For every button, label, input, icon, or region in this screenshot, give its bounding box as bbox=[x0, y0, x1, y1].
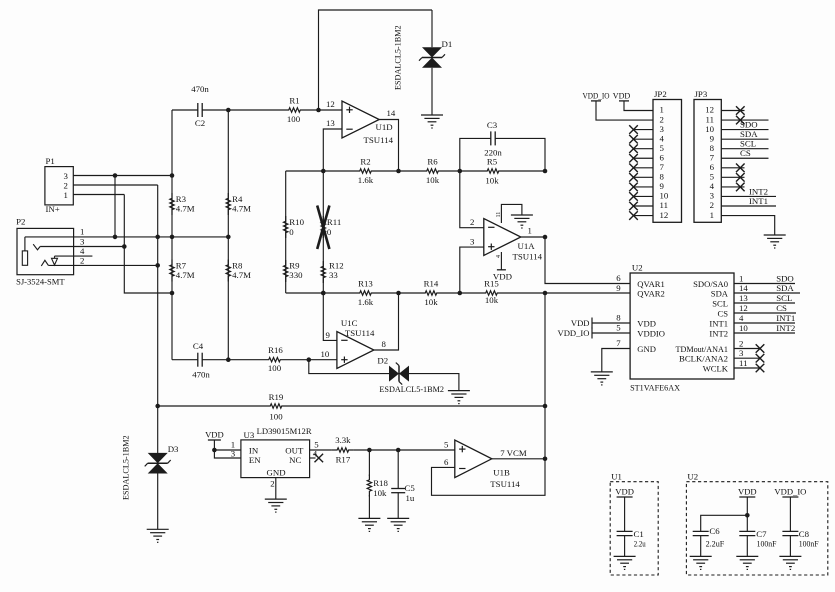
wire U2 GND pin 7 to ground bbox=[602, 349, 630, 372]
svg-text:6: 6 bbox=[660, 152, 665, 162]
jack sleeve line pin 1 bbox=[25, 236, 228, 238]
wire JP3 pin 3 net INT2 bbox=[721, 195, 776, 197]
power flag VDD above C7 bbox=[739, 496, 755, 498]
svg-text:R15: R15 bbox=[484, 279, 499, 289]
svg-text:1: 1 bbox=[64, 190, 68, 200]
wire P2 pin 2 to P1.2 column bbox=[48, 264, 157, 266]
svg-text:2: 2 bbox=[470, 217, 474, 227]
svg-text:C4: C4 bbox=[193, 341, 204, 351]
wire U1B -input pin 6 feedback loop bbox=[432, 459, 546, 496]
svg-text:6: 6 bbox=[444, 457, 449, 467]
svg-text:ST1VAFE6AX: ST1VAFE6AX bbox=[630, 383, 681, 393]
node junction R5 right / C3 right / U1A output net bbox=[543, 169, 548, 174]
wire JP2 pin 12 stub with no-connect bbox=[634, 215, 654, 217]
wire JP2 pin 6 stub with no-connect bbox=[634, 157, 654, 159]
capacitor C7 100nF bbox=[739, 531, 755, 535]
svg-text:100: 100 bbox=[268, 363, 282, 373]
op-amp U1B TSU114 bbox=[455, 440, 492, 478]
node junction VDD / C6 branch bbox=[745, 513, 750, 518]
svg-text:10k: 10k bbox=[373, 488, 387, 498]
svg-text:D2: D2 bbox=[377, 356, 388, 366]
svg-text:14: 14 bbox=[387, 108, 396, 118]
svg-text:4: 4 bbox=[660, 133, 665, 143]
wire JP3 pin 2 net INT1 bbox=[721, 205, 776, 207]
wire gain network row R2 left end down-corner at R10 column bbox=[286, 170, 355, 172]
svg-text:P1: P1 bbox=[46, 156, 55, 166]
wire JP3 pin 4 stub with no-connect bbox=[721, 186, 744, 188]
wire column R11/R12 from R2 row to QVAR2 row bbox=[322, 171, 324, 293]
svg-text:4: 4 bbox=[80, 246, 85, 256]
svg-text:SJ-3524-SMT: SJ-3524-SMT bbox=[16, 277, 65, 287]
ground below C1 bbox=[614, 556, 636, 569]
svg-text:C3: C3 bbox=[487, 120, 498, 130]
svg-text:100nF: 100nF bbox=[757, 539, 777, 549]
svg-text:SDA: SDA bbox=[711, 288, 729, 298]
svg-text:7: 7 bbox=[710, 152, 715, 162]
svg-text:5: 5 bbox=[444, 440, 449, 450]
svg-text:3: 3 bbox=[231, 449, 236, 459]
node junction P1.3 / R3 top / C2 left bbox=[170, 173, 175, 178]
svg-text:VDDIO: VDDIO bbox=[637, 329, 665, 339]
wire JP2 pin 7 stub with no-connect bbox=[634, 167, 654, 169]
svg-text:SDO: SDO bbox=[740, 119, 758, 129]
resistor R14 10k bbox=[420, 291, 442, 295]
svg-text:R17: R17 bbox=[336, 455, 351, 465]
wire P1 pin 2 to vertical column bbox=[73, 184, 157, 186]
svg-text:C6: C6 bbox=[709, 526, 720, 536]
svg-text:R8: R8 bbox=[232, 261, 243, 271]
diode D1 ESDALCL5-1BM2 TVS bbox=[419, 47, 445, 68]
wire U2 pin 4 net INT1 bbox=[734, 322, 795, 324]
svg-text:33: 33 bbox=[329, 270, 338, 280]
wire D1 anode lead down from top wire bbox=[431, 10, 433, 47]
wire from U1C +input node down to D2 bbox=[309, 360, 389, 374]
wire U1A V+ power stub down to VDD bbox=[500, 252, 502, 270]
svg-text:0: 0 bbox=[327, 227, 332, 237]
resistor R18 10k bbox=[367, 475, 371, 497]
wire C5 branch down bbox=[397, 450, 399, 489]
svg-text:U2: U2 bbox=[687, 472, 698, 482]
svg-text:0: 0 bbox=[289, 227, 294, 237]
svg-text:12: 12 bbox=[660, 210, 669, 220]
wire U1A output to VCM column bbox=[521, 236, 545, 238]
wire R19 to VCM column bbox=[287, 405, 545, 407]
svg-text:INT1: INT1 bbox=[749, 196, 768, 206]
resistor R5 10k bbox=[482, 169, 504, 173]
svg-text:WCLK: WCLK bbox=[703, 363, 729, 373]
svg-text:4.7M: 4.7M bbox=[176, 270, 195, 280]
svg-text:8: 8 bbox=[616, 313, 621, 323]
connector P1 box bbox=[45, 167, 73, 205]
svg-text:R5: R5 bbox=[487, 157, 498, 167]
wire EN pin 3 from VDD node bbox=[214, 450, 241, 458]
ground below C6 bbox=[690, 556, 712, 569]
node junction P1.2 column at R19 row bbox=[155, 404, 160, 409]
no-connect X at U2 pin 2 bbox=[756, 344, 765, 353]
svg-text:R18: R18 bbox=[373, 478, 388, 488]
svg-text:9: 9 bbox=[710, 133, 715, 143]
ground below C5 bbox=[387, 518, 409, 531]
svg-text:NC: NC bbox=[289, 455, 301, 465]
node junction R11 bottom on QVAR2 row bbox=[321, 291, 326, 296]
wire VDD to U3 IN pin 1 bbox=[213, 440, 215, 450]
svg-text:10: 10 bbox=[660, 191, 669, 201]
svg-text:9: 9 bbox=[616, 283, 621, 293]
svg-text:4: 4 bbox=[710, 181, 715, 191]
svg-text:3: 3 bbox=[64, 171, 69, 181]
svg-text:3: 3 bbox=[660, 124, 665, 134]
wire VDD to U2 pin 8 bbox=[592, 322, 630, 324]
svg-text:CS: CS bbox=[776, 303, 787, 313]
svg-text:12: 12 bbox=[705, 105, 714, 115]
resistor R17 3.3k bbox=[332, 448, 354, 452]
wire JP2 pin 5 stub with no-connect bbox=[634, 148, 654, 150]
resistor R8 4.7M bbox=[226, 260, 230, 282]
svg-text:U1C: U1C bbox=[341, 318, 358, 328]
svg-text:VDD: VDD bbox=[738, 487, 757, 497]
ground below D3 bbox=[147, 529, 169, 542]
resistor R16 100 bbox=[264, 358, 286, 362]
wire R2 to R6 bbox=[377, 170, 422, 172]
svg-text:ESDALCL5-1BM2: ESDALCL5-1BM2 bbox=[379, 385, 444, 394]
resistor R2 1.6k bbox=[355, 169, 377, 173]
wire P1 pin 3 to R3 column bbox=[73, 175, 172, 177]
wire U1A V- power stub up to ground bbox=[501, 204, 522, 223]
jack switch contact triangle bbox=[52, 256, 58, 265]
ground at U3 bbox=[265, 499, 287, 512]
jack ring contact bbox=[41, 260, 48, 266]
svg-text:R3: R3 bbox=[176, 194, 187, 204]
wire vertical P1.2 down to D3 and R19 bbox=[157, 185, 159, 453]
dashed group box U2 bbox=[686, 482, 827, 575]
svg-text:D3: D3 bbox=[168, 444, 179, 454]
svg-text:INT2: INT2 bbox=[776, 323, 795, 333]
wire VDD_IO to U2 pin 5 bbox=[592, 332, 630, 334]
svg-text:7: 7 bbox=[660, 162, 665, 172]
svg-text:1u: 1u bbox=[406, 493, 415, 503]
wire JP2 pin 8 stub with no-connect bbox=[634, 176, 654, 178]
capacitor C2 470n bbox=[172, 103, 228, 117]
svg-text:CS: CS bbox=[740, 148, 751, 158]
wire VDD_IO to C8 bbox=[789, 497, 791, 532]
node junction R16 / D2 branch bbox=[307, 357, 312, 362]
svg-text:100: 100 bbox=[287, 114, 301, 124]
wire VDD to C1 bbox=[624, 497, 626, 532]
node junction at R7 bottom bbox=[170, 291, 175, 296]
wire JP3 pin 9 net SDA bbox=[721, 138, 768, 140]
ground below R18 bbox=[358, 518, 380, 531]
op-amp U1D TSU114 bbox=[342, 101, 379, 138]
svg-text:2.2uF: 2.2uF bbox=[706, 539, 725, 549]
svg-text:2: 2 bbox=[80, 255, 84, 265]
wire D1 cathode lead down to ground bbox=[431, 68, 433, 115]
wire U2 pin 12 net CS bbox=[734, 312, 796, 314]
wire U1C output up to QVAR2 row bbox=[374, 293, 399, 350]
wire R6 to R5 bbox=[444, 170, 483, 172]
wire P2 pin 4 stub bbox=[55, 255, 93, 257]
power flag VDD above C1 bbox=[617, 496, 633, 498]
node junction R2-left / R11 / pin13 bbox=[321, 169, 326, 174]
node junction R19 / VCM column bbox=[543, 404, 548, 409]
wire column R4/R8 from input row down to C4 row bbox=[227, 110, 229, 360]
diode D2 ESDALCL5-1BM2 TVS bbox=[389, 363, 409, 385]
node junction divider mid row end at R4 column bbox=[226, 235, 231, 240]
wire U1D -input pin 13 feedback from R2 node bbox=[323, 129, 342, 171]
svg-text:INT1: INT1 bbox=[776, 313, 795, 323]
wire C8 to ground bbox=[789, 536, 791, 557]
svg-text:3.3k: 3.3k bbox=[335, 435, 351, 445]
svg-text:VDD_IO: VDD_IO bbox=[774, 487, 806, 497]
resistor R13 1.6k bbox=[355, 291, 377, 295]
svg-text:8: 8 bbox=[382, 339, 387, 349]
resistor R4 4.7M bbox=[226, 193, 230, 215]
svg-text:13: 13 bbox=[739, 293, 748, 303]
svg-text:1.6k: 1.6k bbox=[358, 297, 374, 307]
svg-text:1: 1 bbox=[739, 274, 743, 284]
wire QVAR2 row from R10 column to R13 bbox=[286, 292, 355, 294]
svg-text:12: 12 bbox=[739, 303, 748, 313]
capacitor C8 100nF bbox=[782, 531, 798, 535]
jack tip contact bbox=[33, 244, 40, 250]
node junction P1.3 / vertical to P2.1 bbox=[113, 173, 118, 178]
svg-text:SCL: SCL bbox=[712, 298, 728, 308]
dashed group box U1 bbox=[610, 482, 658, 575]
svg-text:6: 6 bbox=[710, 162, 715, 172]
svg-text:IN: IN bbox=[249, 446, 259, 456]
wire C1 to ground bbox=[624, 536, 626, 557]
svg-text:5: 5 bbox=[710, 172, 715, 182]
wire D2 right to ground bbox=[409, 374, 459, 391]
svg-text:QVAR1: QVAR1 bbox=[637, 279, 665, 289]
wire JP3 pin 8 net SCL bbox=[721, 148, 768, 150]
power flag VDD_IO above C8 bbox=[782, 496, 798, 498]
node junction P1.2 column at divider mid row bbox=[155, 235, 160, 240]
node junction U1B output / VCM column bbox=[543, 457, 548, 462]
wire U1A +input pin 3 from R14/R15 node bbox=[460, 247, 484, 293]
svg-text:7 VCM: 7 VCM bbox=[500, 448, 527, 458]
wire U3 NC stub with no-connect bbox=[310, 457, 316, 459]
svg-text:2: 2 bbox=[660, 114, 664, 124]
wire U2 pin 13 net SCL bbox=[734, 302, 795, 304]
svg-text:2: 2 bbox=[270, 479, 274, 489]
jack sleeve stem to pin 1 line bbox=[24, 237, 26, 251]
DNP cross over R11 bbox=[317, 206, 329, 250]
power flag VDD at U1A bbox=[497, 269, 506, 271]
svg-text:4.7M: 4.7M bbox=[232, 204, 251, 214]
svg-text:D1: D1 bbox=[442, 39, 453, 49]
wire P2 pin 3 bbox=[40, 246, 124, 248]
node junction R6/R5/C3/U1A -input bbox=[458, 169, 463, 174]
wire R14 to R15 bbox=[442, 292, 481, 294]
resistor R19 100 bbox=[265, 404, 287, 408]
power flag VDD at JP2 pin 1 bbox=[619, 100, 629, 102]
svg-text:P2: P2 bbox=[16, 217, 25, 227]
svg-text:OUT: OUT bbox=[285, 446, 304, 456]
wire JP3 pin 6 stub with no-connect bbox=[721, 167, 744, 169]
regulator U3 LD39015M12R box bbox=[241, 440, 310, 478]
wire JP2 pin 10 stub with no-connect bbox=[634, 195, 654, 197]
wire U2 pin 1 net SDO bbox=[734, 283, 795, 285]
svg-text:JP2: JP2 bbox=[654, 89, 667, 99]
svg-text:R12: R12 bbox=[329, 261, 344, 271]
svg-text:TSU114: TSU114 bbox=[513, 252, 543, 262]
svg-text:13: 13 bbox=[326, 118, 335, 128]
node junction R14/R15/U1A +input bbox=[458, 291, 463, 296]
wire U1B output to VCM node bbox=[492, 458, 545, 460]
svg-text:VDD: VDD bbox=[637, 319, 656, 329]
svg-text:U1: U1 bbox=[611, 472, 622, 482]
svg-text:3: 3 bbox=[710, 191, 715, 201]
wire QVAR1 from U1A output node down and right to U2 pin 6 bbox=[545, 237, 630, 283]
svg-text:R2: R2 bbox=[360, 157, 370, 167]
resistor R12 33 bbox=[321, 261, 325, 283]
svg-text:C1: C1 bbox=[634, 529, 644, 539]
svg-text:4.7M: 4.7M bbox=[176, 204, 195, 214]
IC U2 ST1VAFE6AX box bbox=[630, 273, 734, 379]
wire R18 to ground bbox=[368, 495, 370, 518]
wire U2 pin 11 stub bbox=[734, 367, 760, 369]
svg-text:U2: U2 bbox=[632, 263, 643, 273]
wire R16 to U1C +input pin 10 bbox=[286, 359, 337, 361]
wire U2 pin 14 net SDA bbox=[734, 292, 800, 294]
no-connect X at U3 NC bbox=[315, 454, 324, 463]
svg-text:R7: R7 bbox=[176, 261, 187, 271]
wire R18 branch down bbox=[368, 450, 370, 476]
svg-text:C2: C2 bbox=[195, 118, 205, 128]
svg-text:JP3: JP3 bbox=[695, 89, 708, 99]
node junction R15 right / VCM column bbox=[543, 291, 548, 296]
wire C6 to ground bbox=[700, 536, 702, 557]
svg-text:5: 5 bbox=[660, 143, 665, 153]
wire R1 to U1D +input pin 12 bbox=[306, 109, 343, 111]
node junction U1D output on R2 row bbox=[396, 169, 401, 174]
node junction at P2 pin1 row bbox=[113, 235, 118, 240]
svg-text:VDD_IO: VDD_IO bbox=[558, 328, 590, 338]
svg-text:1: 1 bbox=[660, 105, 664, 115]
svg-text:VDD: VDD bbox=[571, 318, 590, 328]
svg-text:11: 11 bbox=[660, 200, 668, 210]
wire C4 node to R16 bbox=[228, 359, 263, 361]
ground at JP3 pin 1 bbox=[764, 235, 786, 248]
wire vertical P1.1 down to P2.3 row then to R7 bottom row bbox=[124, 195, 172, 294]
wire R5 to VCM column bbox=[504, 170, 545, 172]
wire D3 down to ground bbox=[157, 474, 159, 530]
node junction R18 branch bbox=[367, 448, 372, 453]
node junction R13 left / U1C pin9 column bbox=[321, 291, 326, 296]
svg-text:SDA: SDA bbox=[776, 283, 794, 293]
svg-text:10: 10 bbox=[739, 323, 748, 333]
svg-text:R16: R16 bbox=[268, 345, 283, 355]
node junction VDD/IN/EN bbox=[212, 448, 217, 453]
svg-text:7: 7 bbox=[616, 338, 621, 348]
svg-text:3: 3 bbox=[470, 237, 475, 247]
wire R13 to R14 bbox=[377, 292, 421, 294]
svg-text:BCLK/ANA2: BCLK/ANA2 bbox=[679, 354, 728, 364]
svg-text:U1D: U1D bbox=[376, 122, 393, 132]
svg-text:6: 6 bbox=[616, 273, 621, 283]
no-connect X at U2 pin 3 bbox=[756, 354, 765, 363]
wire JP2 pin 9 stub with no-connect bbox=[634, 186, 654, 188]
svg-text:R1: R1 bbox=[289, 96, 299, 106]
svg-text:14: 14 bbox=[739, 283, 748, 293]
svg-text:ESDALCL5-1BM2: ESDALCL5-1BM2 bbox=[394, 25, 403, 90]
svg-text:U1B: U1B bbox=[493, 468, 510, 478]
ground at U1A positive supply pin bbox=[511, 215, 533, 228]
capacitor C5 1u bbox=[391, 489, 405, 493]
svg-text:VDD_IO: VDD_IO bbox=[583, 90, 610, 100]
resistor R7 4.7M bbox=[170, 260, 174, 282]
svg-text:VDD: VDD bbox=[613, 90, 631, 100]
svg-text:100nF: 100nF bbox=[799, 539, 819, 549]
ground below C8 bbox=[779, 556, 801, 569]
wire U2 pin 2 stub bbox=[734, 348, 760, 350]
svg-text:2.2u: 2.2u bbox=[634, 539, 646, 549]
jack sleeve contact rectangle bbox=[22, 251, 27, 265]
svg-text:CS: CS bbox=[717, 308, 728, 318]
resistor R1 100 bbox=[284, 108, 306, 112]
wire top feedback from node at U1D +input up and right to D1 bbox=[319, 10, 433, 110]
svg-text:330: 330 bbox=[289, 270, 303, 280]
svg-text:3: 3 bbox=[80, 236, 85, 246]
node junction P1.2 column at P2.2 row bbox=[155, 263, 160, 268]
svg-text:SCL: SCL bbox=[776, 293, 792, 303]
wire U3 GND down to ground bbox=[275, 478, 277, 500]
wire U1C -input pin 9 from QVAR2 row bbox=[323, 293, 337, 340]
svg-text:ESDALCL5-1BM2: ESDALCL5-1BM2 bbox=[122, 435, 131, 500]
wire JP3 pin 12 stub with no-connect bbox=[721, 110, 744, 112]
resistor R15 10k bbox=[481, 291, 503, 295]
resistor R9 330 bbox=[284, 260, 288, 282]
ground below C7 bbox=[736, 556, 758, 569]
svg-text:SDA: SDA bbox=[740, 129, 758, 139]
wire VDD down through junction to C7 bbox=[746, 497, 748, 532]
svg-text:EN: EN bbox=[249, 455, 261, 465]
wire P1 pin 1 to vertical column bbox=[73, 194, 124, 196]
svg-text:GND: GND bbox=[267, 468, 286, 478]
wire C5 to ground bbox=[397, 493, 399, 519]
svg-text:10k: 10k bbox=[424, 297, 438, 307]
op-amp U1A TSU114 bbox=[484, 219, 521, 256]
svg-text:9: 9 bbox=[326, 330, 331, 340]
wire JP3 pin 1 to ground bbox=[721, 216, 774, 235]
resistor R11 0 (DNP) bbox=[321, 216, 325, 238]
svg-text:8: 8 bbox=[710, 143, 715, 153]
svg-text:R10: R10 bbox=[289, 217, 304, 227]
svg-text:11: 11 bbox=[706, 114, 714, 124]
capacitor C1 2.2u bbox=[617, 531, 633, 535]
svg-text:IN+: IN+ bbox=[46, 204, 60, 214]
svg-text:TDMout/ANA1: TDMout/ANA1 bbox=[676, 344, 729, 354]
svg-text:10: 10 bbox=[321, 349, 330, 359]
resistor R10 0 bbox=[284, 216, 288, 238]
svg-text:470n: 470n bbox=[192, 370, 210, 380]
wire R17 to U1B +input bbox=[354, 449, 455, 451]
svg-text:1.6k: 1.6k bbox=[358, 175, 374, 185]
svg-text:10: 10 bbox=[705, 124, 714, 134]
wire column R3/R7 from input row down to C4 row bbox=[171, 110, 173, 360]
svg-text:VDD: VDD bbox=[205, 430, 224, 440]
node junction P1.1 column at P2.3 row bbox=[122, 244, 127, 249]
wire vertical P1.3 down to P2.1 row bbox=[114, 176, 116, 237]
power flag VDD at U3 input bbox=[208, 439, 221, 441]
wire U2 pin 3 stub bbox=[734, 357, 760, 359]
svg-text:C5: C5 bbox=[405, 483, 416, 493]
ground below D1 bbox=[421, 115, 443, 128]
wire VDD_IO to JP2 pin 2 bbox=[596, 101, 653, 120]
wire JP3 pin 11 with no-connect bbox=[721, 119, 768, 121]
wire JP3 pin 5 stub with no-connect bbox=[721, 176, 744, 178]
svg-text:1: 1 bbox=[710, 210, 714, 220]
